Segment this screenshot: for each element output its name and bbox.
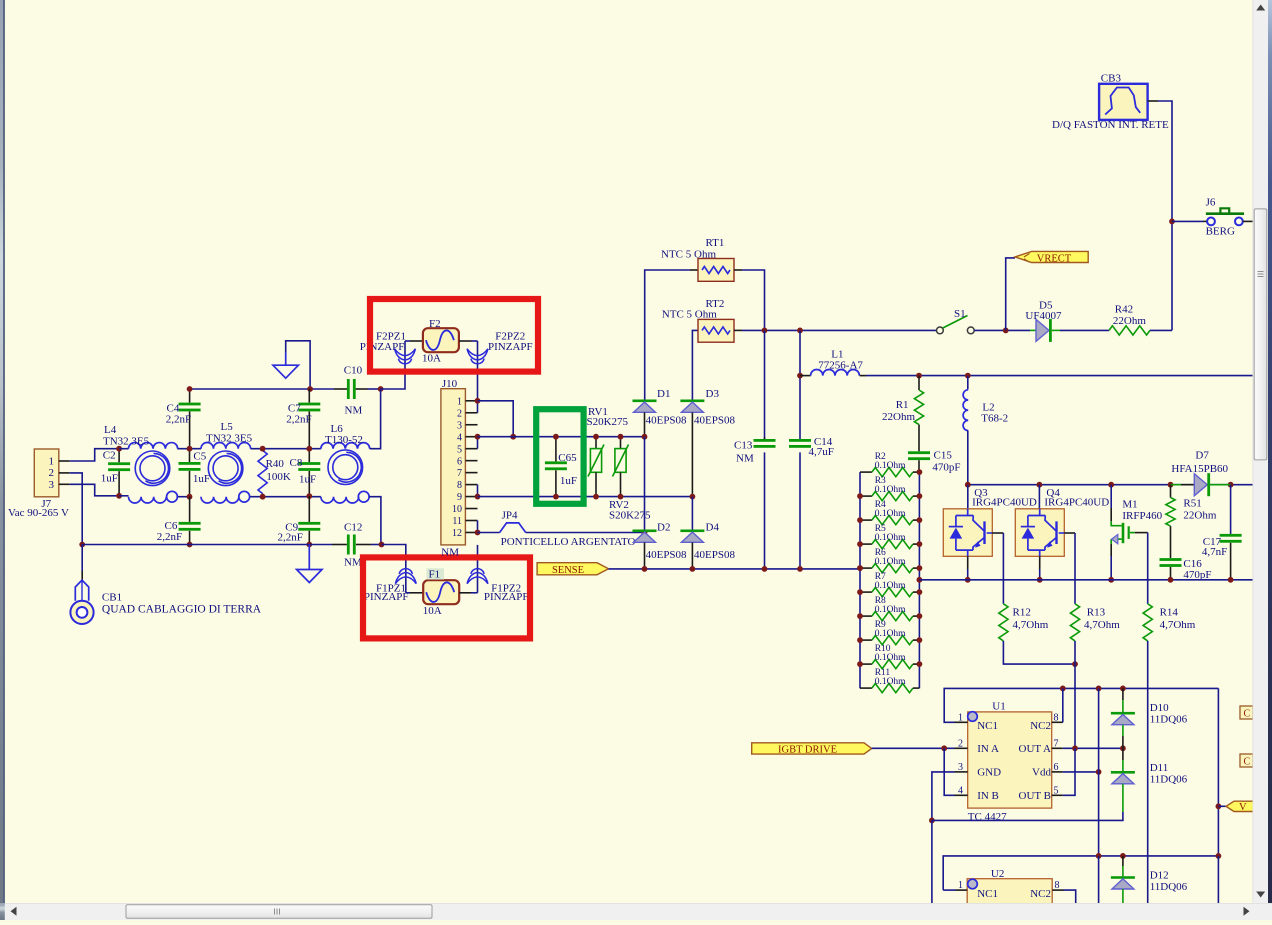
- svg-text:C: C: [1244, 756, 1251, 767]
- pin J7-3: [59, 483, 70, 485]
- diode D4 40EPS08: [691, 497, 693, 530]
- svg-text:VRECT: VRECT: [1037, 253, 1072, 264]
- flag VDRIVE (cut): [1226, 801, 1256, 811]
- pin U1-7: [1052, 747, 1063, 749]
- clip F2PZ2 PINZAPF: [467, 349, 488, 360]
- svg-text:5: 5: [457, 444, 462, 455]
- svg-text:2,2nF: 2,2nF: [157, 531, 182, 543]
- wire U1 pin4 strap to IN A: [944, 748, 954, 795]
- resistor R42 22Ohm: [1109, 326, 1150, 335]
- diode D11 11DQ06: [1122, 748, 1124, 760]
- node junction D7 cathode/C17: [1228, 482, 1234, 488]
- svg-text:1uF: 1uF: [193, 473, 210, 485]
- node junction C13/SENSE: [762, 566, 768, 572]
- wire J10 pins 8-9 strap: [477, 485, 479, 497]
- resistor R6 0.1Ohm: [860, 567, 872, 569]
- wire J10 pins 1-2 strap: [477, 401, 479, 413]
- wire +rail RT2 to S1: [742, 329, 937, 331]
- svg-text:8: 8: [1055, 880, 1060, 891]
- node junction C5 bottom: [187, 494, 193, 500]
- node junction D10 cathode: [1120, 686, 1126, 692]
- svg-text:3: 3: [49, 479, 55, 491]
- node junction D3/D4 AC2: [690, 494, 696, 500]
- svg-text:6: 6: [457, 456, 462, 467]
- wire C14 column: [799, 330, 801, 439]
- svg-text:0.1Ohm: 0.1Ohm: [875, 605, 906, 615]
- wire R14 line down to bottom: [1147, 641, 1149, 903]
- node junction stack left R4: [857, 517, 863, 523]
- wire fuse F1 right pin to clip F1PZ2: [459, 592, 471, 594]
- pin J7-1: [59, 460, 70, 462]
- svg-text:4,7nF: 4,7nF: [1202, 546, 1227, 558]
- node junction C17 bus: [1228, 577, 1234, 583]
- wire D4 anode to SENSE: [691, 542, 693, 569]
- svg-text:1uF: 1uF: [560, 475, 577, 487]
- svg-text:3: 3: [958, 762, 963, 773]
- node junction J6 tap: [1169, 219, 1175, 225]
- svg-text:4,7Ohm: 4,7Ohm: [1084, 619, 1120, 631]
- flag SENSE: [537, 563, 608, 575]
- clip F1PZ1 PINZAPF: [395, 573, 416, 584]
- wire Vdd vertical: [1098, 688, 1100, 856]
- pin M1 gate: [1135, 532, 1148, 534]
- node junction stack left R5: [857, 541, 863, 547]
- choke L6 T130-52: [321, 443, 370, 449]
- svg-text:NTC 5 Ohm: NTC 5 Ohm: [661, 248, 716, 260]
- pin J10-8: [465, 484, 477, 486]
- wire Q4 collector lead: [1038, 485, 1040, 509]
- wire R13 line down to OUT A: [1074, 641, 1076, 748]
- node junction C65 top: [553, 434, 559, 440]
- svg-text:UF4007: UF4007: [1025, 310, 1062, 322]
- node junction stack left R8: [857, 613, 863, 619]
- node junction R1 tap: [916, 373, 922, 379]
- node junction RV2 bottom: [618, 494, 624, 500]
- wire Q4 gate to R13: [1074, 533, 1076, 604]
- capacitor C4 2,2nF: [189, 389, 191, 403]
- svg-text:0.1Ohm: 0.1Ohm: [875, 653, 906, 663]
- node junction pin1-loop on AC1: [510, 434, 516, 440]
- node junction Q4 emitter: [1037, 577, 1043, 583]
- node junction R40 top: [260, 446, 266, 452]
- svg-text:9: 9: [457, 492, 462, 503]
- resistor R5 0.1Ohm: [860, 543, 872, 545]
- switch S1: [937, 327, 944, 334]
- svg-text:C16: C16: [1183, 558, 1202, 570]
- node junction IN A / IN B strap: [941, 745, 947, 751]
- node junction C7/C8 row: [306, 446, 312, 452]
- svg-text:7: 7: [1054, 738, 1059, 749]
- node junction Q3 emitter: [965, 577, 971, 583]
- svg-text:C8: C8: [290, 457, 303, 469]
- pin CB3: [1148, 100, 1158, 102]
- resistor R40 100K: [262, 449, 264, 451]
- svg-text:5: 5: [1054, 785, 1059, 796]
- wire Q3 gate to R12: [1002, 533, 1004, 604]
- wire R42 to CB3 drop: [1150, 329, 1172, 331]
- fuse F1 10A: [423, 580, 459, 604]
- node junction J10 pin9: [475, 494, 481, 500]
- inductor L1 77256-A7: [800, 375, 811, 377]
- vertical scrollbar track: [1253, 0, 1269, 903]
- svg-text:0.1Ohm: 0.1Ohm: [875, 509, 906, 519]
- svg-text:L5: L5: [221, 421, 234, 433]
- pin J7-2: [59, 472, 70, 474]
- flag VRECT: [1015, 251, 1088, 262]
- wire J10 pins 4-5 strap: [477, 437, 479, 449]
- node junction D4/SENSE: [690, 566, 696, 572]
- svg-text:R1: R1: [896, 399, 909, 411]
- pin J10-2: [465, 412, 477, 414]
- svg-text:S20K275: S20K275: [587, 416, 629, 428]
- node junction stack right R5: [917, 541, 923, 547]
- node junction D2/SENSE: [642, 566, 648, 572]
- pin J10-3: [465, 424, 477, 426]
- svg-text:NC2: NC2: [1030, 720, 1051, 732]
- node junction earth bus at J7: [79, 542, 85, 548]
- svg-text:IGBT DRIVE: IGBT DRIVE: [778, 744, 837, 755]
- capacitor C13 (NM): [764, 438, 766, 439]
- svg-text:PINZAPF: PINZAPF: [360, 341, 405, 353]
- svg-text:Vdd: Vdd: [1032, 766, 1051, 778]
- jumper J6 BERG: [1203, 220, 1207, 222]
- connector J7 Vac 90-265 V: [34, 449, 59, 497]
- svg-text:C2: C2: [103, 449, 116, 461]
- node junction stack right R10: [917, 661, 923, 667]
- horizontal scrollbar right arrow: [1244, 907, 1250, 916]
- node junction R40 bottom: [260, 494, 266, 500]
- wire AC1 line pin4 to bridge: [478, 436, 645, 438]
- wire J10 pins 11-12 strap: [477, 521, 479, 533]
- wire R12 bottom to R13 line: [1003, 641, 1075, 664]
- svg-text:1: 1: [958, 712, 963, 723]
- node junction Vdd riser: [1096, 769, 1102, 775]
- svg-text:D/Q FASTON INT. RETE: D/Q FASTON INT. RETE: [1052, 119, 1169, 131]
- jumper JP4 PONTICELLO ARGENTATO: [500, 523, 526, 533]
- node junction VDRIVE tap: [1216, 803, 1222, 809]
- svg-text:10A: 10A: [423, 605, 442, 617]
- pin J10-1: [465, 400, 477, 402]
- wire U1 NC2 riser: [1062, 688, 1064, 722]
- node junction J10 pin4: [475, 434, 481, 440]
- svg-text:NM: NM: [344, 557, 362, 569]
- svg-text:S1: S1: [954, 308, 966, 320]
- svg-text:11DQ06: 11DQ06: [1150, 714, 1188, 726]
- wire Q3 collector lead: [967, 485, 969, 509]
- svg-text:1: 1: [457, 396, 462, 407]
- svg-text:NM: NM: [441, 546, 459, 558]
- wire U1 GND down-left: [932, 772, 955, 821]
- ic U1 TC 4427: [968, 712, 1052, 808]
- wire right vertical lower: [1217, 856, 1219, 903]
- capacitor C15 470pF: [908, 451, 930, 454]
- highlight green box around C65: [536, 409, 583, 504]
- svg-text:40EPS08: 40EPS08: [694, 549, 735, 561]
- ic U2 TC 4427: [967, 879, 1052, 920]
- wire C13 column: [764, 330, 766, 439]
- wire L6 bottom right to earth bus: [369, 497, 381, 545]
- wire M1 source to bus: [1110, 544, 1112, 556]
- node junction Vdd riser top: [1096, 686, 1102, 692]
- svg-text:C15: C15: [934, 450, 953, 462]
- transistor Q3 IRG4PC40UD: [943, 509, 992, 557]
- svg-text:4: 4: [457, 432, 462, 443]
- choke L5 TN32 3E5: [201, 443, 251, 449]
- svg-text:NM: NM: [345, 405, 363, 417]
- node junction VRECT tap: [1003, 328, 1009, 334]
- svg-text:M1: M1: [1122, 499, 1137, 511]
- svg-text:470pF: 470pF: [932, 462, 960, 474]
- ground bottom: [308, 545, 310, 570]
- svg-text:U2: U2: [991, 868, 1004, 880]
- node junction C6 bottom: [187, 542, 193, 548]
- pin U2-8: [1052, 889, 1063, 891]
- capacitor C9 2,2nF: [308, 496, 310, 522]
- svg-text:CB3: CB3: [1101, 73, 1122, 85]
- node junction L2/Q3 collector: [965, 482, 971, 488]
- pin J10-6: [465, 460, 477, 462]
- svg-text:100K: 100K: [266, 471, 291, 483]
- wire IGBT DRIVE to U1 IN A: [872, 747, 955, 749]
- highlight red box around F1: [363, 557, 530, 638]
- node junction OUT A/D10-D11: [1120, 745, 1126, 751]
- wire D3 anode to AC2: [691, 412, 693, 496]
- inductor L2 T68-2: [967, 376, 969, 390]
- node junction C65 bottom: [553, 494, 559, 500]
- svg-text:22Ohm: 22Ohm: [1183, 510, 1216, 522]
- pin U1-5: [1052, 794, 1063, 796]
- capacitor C6 2,2nF: [189, 497, 191, 522]
- wire J10 pin1 loop to AC1 line: [478, 401, 514, 437]
- node junction C15 to stack: [917, 469, 923, 475]
- wire top bus y=389: [190, 388, 334, 390]
- svg-text:J6: J6: [1206, 197, 1216, 209]
- svg-text:40EPS08: 40EPS08: [646, 549, 687, 561]
- svg-text:0.1Ohm: 0.1Ohm: [875, 677, 906, 687]
- svg-text:C13: C13: [734, 440, 753, 452]
- svg-text:D11: D11: [1150, 762, 1169, 774]
- svg-text:11DQ06: 11DQ06: [1150, 774, 1188, 786]
- wire bottom winding row: [119, 495, 128, 497]
- node junction M1 drain: [1108, 482, 1114, 488]
- wire top winding row: [119, 448, 128, 450]
- svg-text:D12: D12: [1150, 870, 1169, 882]
- wire J10 pin12 to JP4: [478, 532, 500, 534]
- pin J10-10: [465, 508, 477, 510]
- diode D7 HFA15PB60: [1171, 484, 1182, 486]
- resistor R11 0.1Ohm: [860, 687, 872, 689]
- svg-text:IN B: IN B: [977, 790, 999, 802]
- svg-text:8: 8: [457, 480, 462, 491]
- svg-text:R40: R40: [266, 458, 285, 470]
- node junction RV1 top: [593, 434, 599, 440]
- svg-text:1: 1: [958, 880, 963, 891]
- node junction bus/L6-top/F2 wire: [378, 386, 384, 392]
- svg-text:77256-A7: 77256-A7: [818, 360, 863, 372]
- svg-text:2,2nF: 2,2nF: [286, 414, 311, 426]
- resistor R3 0.1Ohm: [860, 495, 872, 497]
- svg-text:22Ohm: 22Ohm: [1113, 315, 1146, 327]
- node junction stack right R7: [917, 589, 923, 595]
- svg-text:PINZAPF: PINZAPF: [484, 591, 529, 603]
- svg-text:U1: U1: [992, 701, 1005, 713]
- capacitor C8 1uF: [308, 449, 310, 462]
- svg-text:C12: C12: [344, 522, 362, 534]
- node junction C5 top: [187, 446, 193, 452]
- svg-text:R12: R12: [1013, 607, 1031, 619]
- node junction stack left R9: [857, 637, 863, 643]
- node junction OUT A/R13: [1072, 745, 1078, 751]
- choke L4 TN32 3E5: [129, 443, 178, 449]
- svg-text:0.1Ohm: 0.1Ohm: [875, 461, 906, 471]
- wire right vertical to VDRIVE: [1217, 688, 1219, 856]
- svg-text:IRG4PC40UD: IRG4PC40UD: [1044, 497, 1109, 509]
- wire OUT B riser to OUT A: [1063, 748, 1075, 795]
- svg-text:2,2nF: 2,2nF: [278, 532, 303, 544]
- wire U2 pin8 down: [1064, 890, 1076, 903]
- clip F2PZ1 PINZAPF: [395, 349, 416, 360]
- svg-text:0.1Ohm: 0.1Ohm: [875, 485, 906, 495]
- wire GND rail to D11 anode: [932, 812, 1123, 820]
- varistor RV2 S20K275: [620, 437, 622, 449]
- wire J7 pin2 down to earth bus: [70, 473, 83, 545]
- svg-text:0.1Ohm: 0.1Ohm: [875, 533, 906, 543]
- pin U2-1: [956, 889, 968, 891]
- thermistor RT2 NTC 5 Ohm: [698, 319, 734, 342]
- wire J7 pin1 to top row: [70, 449, 119, 461]
- svg-text:NC1: NC1: [977, 888, 998, 900]
- capacitor C2 1uF: [118, 449, 120, 463]
- svg-text:4,7Ohm: 4,7Ohm: [1160, 619, 1196, 631]
- node junction stack right R4: [917, 517, 923, 523]
- pin U1-8: [1052, 721, 1063, 723]
- svg-text:PINZAPF: PINZAPF: [488, 341, 533, 353]
- svg-text:4,7Ohm: 4,7Ohm: [1013, 619, 1049, 631]
- wire RT1 right to +rail riser: [742, 270, 765, 330]
- svg-text:D2: D2: [657, 522, 670, 534]
- wire D5 to R42: [1060, 329, 1109, 331]
- pin J10-7: [465, 472, 477, 474]
- resistor R14 4,7Ohm: [1143, 604, 1152, 641]
- svg-text:12: 12: [452, 528, 462, 539]
- node junction C4 top: [187, 386, 193, 392]
- wire F1PZ1 to fuse F1 left pin: [406, 592, 410, 594]
- wire M1 gate to R14: [1147, 533, 1149, 604]
- svg-text:Vac 90-265 V: Vac 90-265 V: [8, 507, 69, 519]
- wire OUT A line: [1063, 747, 1123, 749]
- wire ground jog to bus: [286, 341, 310, 389]
- svg-text:40EPS08: 40EPS08: [694, 414, 735, 426]
- svg-text:7: 7: [457, 468, 462, 479]
- wire bus corner to F2 clip F2PZ1: [381, 341, 405, 389]
- resistor R13 4,7Ohm: [1070, 604, 1079, 641]
- node junction C2 bottom: [116, 493, 122, 499]
- wire to V flag: [1218, 805, 1226, 807]
- svg-text:T68-2: T68-2: [981, 413, 1008, 425]
- diode D3 40EPS08: [691, 402, 693, 412]
- svg-text:TN32 3E5: TN32 3E5: [103, 436, 150, 448]
- svg-text:QUAD CABLAGGIO DI TERRA: QUAD CABLAGGIO DI TERRA: [102, 603, 262, 615]
- clip F1PZ2 PINZAPF: [467, 573, 488, 584]
- vertical scrollbar down arrow: [1256, 892, 1265, 898]
- svg-text:NM: NM: [736, 452, 754, 464]
- pin U1-2: [955, 747, 968, 749]
- svg-text:IRG4PC40UD: IRG4PC40UD: [972, 497, 1037, 509]
- svg-text:L4: L4: [104, 424, 117, 436]
- wire Vdd vertical lower: [1098, 856, 1100, 903]
- node junction D12 top: [1120, 853, 1126, 859]
- wire Q3 emitter to bus: [967, 556, 969, 569]
- svg-text:BERG: BERG: [1206, 226, 1235, 238]
- vertical scrollbar thumb: [1254, 209, 1267, 460]
- transistor M1 IRFP460: [1110, 485, 1112, 508]
- resistor R9 0.1Ohm: [860, 639, 872, 641]
- svg-text:1: 1: [49, 455, 55, 467]
- node junction stack right R3: [917, 493, 923, 499]
- ground top-left: [273, 365, 298, 378]
- wire D2 anode to SENSE: [644, 542, 646, 569]
- node junction stack left R7: [857, 589, 863, 595]
- svg-text:D7: D7: [1195, 450, 1209, 462]
- svg-text:R13: R13: [1087, 607, 1106, 619]
- svg-text:4: 4: [958, 785, 963, 796]
- svg-text:1uF: 1uF: [299, 474, 316, 486]
- svg-text:NC1: NC1: [977, 720, 998, 732]
- svg-text:11: 11: [452, 516, 462, 527]
- node junction stack right R8: [917, 613, 923, 619]
- wire stack right rail: [918, 472, 920, 688]
- pin J10-11: [465, 520, 477, 522]
- transistor Q4 IRG4PC40UD: [1015, 509, 1064, 557]
- wire Q4 emitter to bus: [1039, 556, 1041, 569]
- svg-text:1uF: 1uF: [101, 472, 118, 484]
- node junction right vertical bottom: [1216, 853, 1222, 859]
- svg-text:IN A: IN A: [977, 743, 999, 755]
- node junction R12/R13: [1072, 661, 1078, 667]
- wire D1 anode to AC1: [644, 412, 646, 436]
- wire emitter bus y=579.8: [919, 579, 1252, 581]
- diode D2 40EPS08: [644, 437, 646, 530]
- fuse F2 10A: [423, 328, 459, 352]
- node junction stack right R6: [917, 565, 923, 571]
- svg-text:NTC 5 Ohm: NTC 5 Ohm: [662, 309, 717, 321]
- svg-text:F2: F2: [429, 318, 441, 330]
- svg-text:PINZAPF: PINZAPF: [364, 591, 409, 603]
- svg-text:2: 2: [958, 738, 963, 749]
- svg-text:10A: 10A: [422, 353, 441, 365]
- diode D12 11DQ06: [1122, 856, 1124, 866]
- svg-text:T130-52: T130-52: [325, 434, 363, 446]
- node junction C9 bottom: [306, 542, 312, 548]
- svg-text:C10: C10: [344, 365, 363, 377]
- node junction stack left R3: [857, 493, 863, 499]
- right desktop edge strip: [1268, 0, 1272, 903]
- svg-text:NC2: NC2: [1030, 888, 1051, 900]
- node junction C8/C9 row: [306, 493, 312, 499]
- capacitor C5 1uF: [189, 449, 191, 462]
- node junction R51/D7 anode: [1168, 482, 1174, 488]
- terminal CB1 QUAD CABLAGGIO DI TERRA: [75, 580, 88, 601]
- wire earth drop to CB1: [81, 545, 83, 572]
- wire earth bus y=544.5: [82, 544, 189, 546]
- svg-text:SENSE: SENSE: [552, 565, 584, 576]
- node junction C2 top: [116, 446, 122, 452]
- node junction SENSE to stack: [857, 565, 863, 571]
- node junction RV2 top: [618, 434, 624, 440]
- svg-text:8: 8: [1054, 712, 1059, 723]
- pin U1-4: [955, 794, 968, 796]
- node junction stack right R9: [917, 637, 923, 643]
